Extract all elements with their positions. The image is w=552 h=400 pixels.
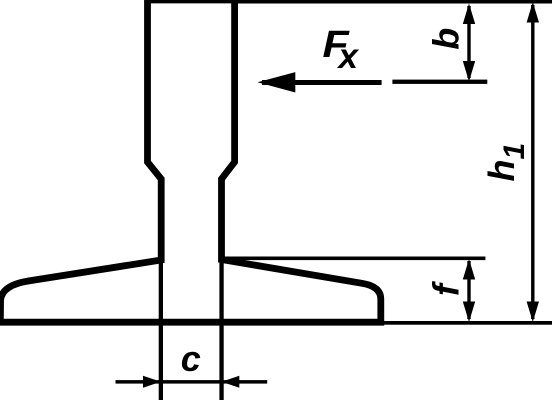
dimension f [463,259,475,322]
c extension line right [219,256,223,400]
label h1 (rotated) [481,143,531,182]
b bottom extension line [392,80,487,84]
svg-text:h1: h1 [481,143,531,182]
Fx force arrow [258,72,382,92]
svg-text:x: x [337,37,360,76]
rail cross-section outline [0,0,380,322]
dimension h1 [527,2,539,322]
ground baseline [0,321,552,325]
top extension line [234,0,552,4]
dimension b [463,4,475,82]
c extension line left [159,256,163,400]
svg-text:f: f [426,281,467,296]
svg-text:b: b [426,28,467,50]
dimension c [116,376,268,388]
svg-text:c: c [181,338,201,379]
f extension line [221,257,485,261]
